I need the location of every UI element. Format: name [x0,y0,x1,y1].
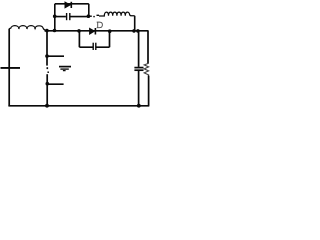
switch dashed blade [46,67,48,69]
node cap branch junction [136,29,140,33]
node cap bottom rail junction [137,104,141,108]
wire clamp loop left leg [78,31,80,47]
node snubber cap left [53,14,57,18]
wire snubber top [55,3,89,5]
node clamp right junction [108,29,112,33]
wire bottom rail [8,105,149,107]
battery E plate [1,67,21,69]
node switch top terminal [45,54,49,58]
wire snubber cap row [55,16,89,18]
label D [97,22,103,28]
wire switch branch lower [46,74,48,106]
capacitor mark near switch [59,66,71,68]
diode D1 snubber [65,2,71,8]
node snubber cap right [87,14,91,18]
wire snubber right leg [88,4,90,17]
node switch bottom rail junction [45,104,49,108]
wire left rail [8,29,10,106]
wire main horizontal [45,30,149,32]
inductor L2 [99,12,135,16]
capacitor C1 snubber [66,13,68,20]
wire L2 down leg [134,16,136,31]
wire clamp loop bottom [79,46,109,48]
wire right rail lower [148,76,150,106]
switch bottom terminal stub [47,83,63,85]
node L2 junction [132,29,136,33]
wire right rail upper [147,31,149,64]
resistor R load [144,64,148,77]
diode D [90,28,95,34]
wire dashed link [89,15,92,17]
inductor L1 [9,26,46,31]
wire output cap branch [138,31,140,67]
capacitor Co output [134,67,143,69]
capacitor C2 clamp [92,43,94,50]
wire switch branch upper [46,31,48,66]
node main-coil junction [45,29,49,33]
wire snubber left leg [54,4,56,31]
wire clamp loop right leg [109,31,111,47]
node clamp left junction [77,29,81,33]
node snubber leg junction [53,29,57,33]
node switch bottom terminal [46,82,50,86]
switch top terminal stub [47,55,64,57]
